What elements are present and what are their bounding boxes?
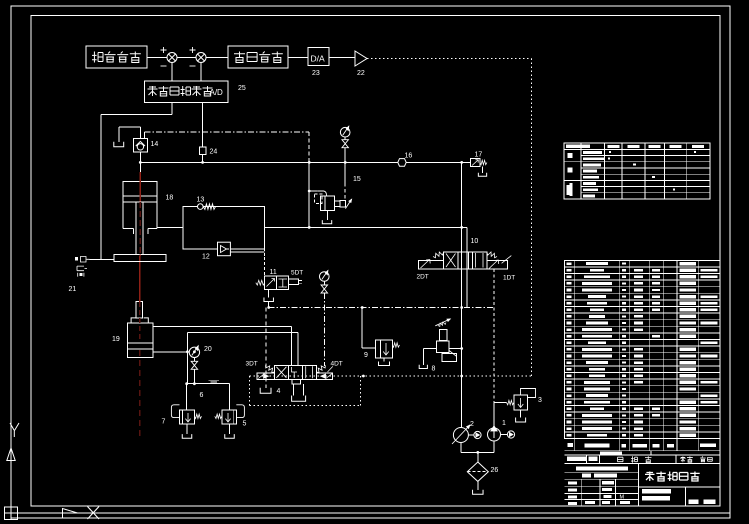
drawing title: hydraulic system diagram — [638, 486, 720, 488]
svg-text:7: 7 — [162, 419, 166, 426]
pump 1 fixed — [488, 428, 501, 441]
wire S1 to S2 — [177, 57, 196, 59]
UCS X axis arrow — [63, 509, 78, 518]
svg-text:22: 22 — [357, 70, 365, 77]
valve 10 right solenoid block — [487, 261, 508, 270]
dotted electric line bottom — [250, 375, 532, 377]
relief valve 3 — [514, 395, 528, 410]
wire command to summing junction — [147, 57, 167, 59]
svg-text:25: 25 — [238, 85, 246, 92]
cylinder 18 body — [123, 182, 157, 196]
svg-text:5DT: 5DT — [291, 270, 303, 277]
cylinder 19 body — [128, 323, 153, 357]
relief valve 7 — [180, 410, 195, 424]
cylinder 18 piston rod — [135, 202, 137, 254]
relief valve 5 — [222, 410, 237, 424]
parts category table top right — [564, 143, 710, 199]
svg-text:13: 13 — [197, 197, 205, 204]
wire 309 down to valve 15 and line y227 — [308, 162, 310, 227]
svg-text:1: 1 — [502, 420, 506, 427]
svg-text:24: 24 — [210, 149, 218, 156]
wire 8 right to pressure line — [449, 348, 462, 350]
dashed line down into main line at 309 — [308, 132, 310, 163]
block: command signal (zhiling xinhao) — [86, 46, 147, 68]
valve 4 right solenoid block — [316, 373, 332, 380]
breather tank symbol — [114, 142, 124, 147]
main line wire — [140, 161, 461, 163]
BOM header row — [565, 450, 720, 452]
svg-text:11: 11 — [270, 269, 277, 276]
cylinder 19 flange — [131, 318, 148, 323]
valve 17 drain — [482, 167, 484, 173]
svg-text:M: M — [620, 495, 625, 501]
BOM strip row — [565, 454, 720, 456]
solenoid valve 11 2-position — [265, 276, 289, 289]
svg-text:9: 9 — [364, 352, 368, 359]
wire to valve 9 — [361, 308, 363, 349]
suction line wires — [460, 443, 462, 453]
svg-text:2: 2 — [470, 421, 474, 428]
wire check valve 14 down to main line — [139, 152, 141, 181]
wire S2 down to A/D box — [200, 63, 202, 82]
valve 3 drain — [520, 410, 522, 417]
svg-text:2DT: 2DT — [417, 274, 429, 281]
svg-text:A/D: A/D — [210, 88, 224, 97]
cylinder 19 rod gland — [136, 302, 143, 318]
sensor bus vertical left — [100, 115, 102, 260]
svg-text:15: 15 — [353, 176, 361, 183]
wire S2 to control signal — [206, 57, 228, 59]
svg-text:10: 10 — [471, 238, 479, 245]
dash-dot pilot line from 14 to x309 — [144, 132, 146, 139]
filter 26 — [467, 462, 488, 481]
summing junction S1 — [167, 53, 177, 63]
svg-text:5: 5 — [243, 421, 247, 428]
solenoid valve 4 3-position body — [274, 365, 316, 379]
detail list title row — [565, 463, 720, 465]
svg-text:14: 14 — [151, 141, 159, 148]
block: multi-channel analog switch A/D 25 — [145, 81, 228, 103]
wire control to D/A — [288, 57, 308, 59]
svg-text:21: 21 — [69, 286, 77, 293]
block: control signal (kongzhi xinhao) — [228, 46, 288, 68]
pilot line from main line to valve 15 solenoid — [344, 162, 346, 183]
gauge 20 — [193, 350, 196, 353]
position sensor 21 glyphs — [75, 257, 78, 261]
wire down to valve 7 — [186, 384, 188, 410]
wire platform to position sensor 21 — [90, 258, 115, 260]
valve 7 drain — [186, 424, 188, 434]
dashed pilot from gauge down to valve 4 — [323, 293, 325, 366]
gauge above main line — [340, 127, 350, 137]
riser x187 wire — [186, 333, 188, 384]
pump 2 shaft motor — [468, 434, 474, 436]
UCS origin box — [5, 507, 18, 520]
work line x467 wire — [466, 227, 468, 307]
table group marks — [568, 153, 573, 158]
tank 6 vent marks — [209, 379, 220, 381]
svg-text:8: 8 — [432, 366, 436, 373]
wire breather to check valve 14 — [119, 126, 141, 128]
wire A/D box down-left to sensor bus — [171, 103, 173, 115]
cylinder 19 bottom port wire — [153, 351, 188, 353]
dotted enclosure right — [360, 376, 362, 406]
svg-text:3DT: 3DT — [246, 361, 258, 368]
node at 461 main line corner — [460, 161, 463, 164]
cylinder 18 port wire to feedback block — [157, 227, 183, 229]
wire pump1 pilot to valve 3 — [494, 402, 507, 404]
table name blobs — [583, 151, 602, 154]
svg-text:16: 16 — [405, 153, 413, 160]
table scatter marks — [609, 151, 611, 153]
gauge by valve 4 — [320, 272, 330, 282]
wire S1 down to A/D box — [171, 63, 173, 82]
wire block right to line y227 — [265, 226, 310, 228]
shutoff under gauge 20 — [193, 358, 195, 362]
svg-text:18: 18 — [166, 195, 174, 202]
svg-text:23: 23 — [312, 70, 320, 77]
coupling 16 — [398, 159, 406, 167]
svg-text:1DT: 1DT — [503, 275, 515, 282]
wire 24 down to main line — [202, 155, 204, 163]
wire D/A to amplifier — [329, 57, 355, 59]
pump 1 shaft motor — [501, 434, 508, 436]
UCS X axis label — [88, 507, 100, 520]
pilot branch from line y227 down to valve 11 — [264, 227, 266, 243]
dotted electric line down x531 — [531, 59, 533, 377]
dotted electric line from amplifier to x531 — [367, 58, 532, 60]
valve 15 proportional pressure valve — [318, 191, 327, 196]
valve 9 drain — [383, 358, 385, 362]
sensor 12 on block bottom — [218, 242, 231, 256]
valve 15 drain to tank — [327, 211, 329, 221]
title block upper rows — [565, 471, 639, 473]
title block sub-table — [580, 479, 582, 506]
filter to tank — [477, 481, 479, 489]
wire to valve 15 — [309, 190, 317, 192]
valve 11 drain dashed down to tank — [265, 308, 267, 388]
tank 6 line wire — [187, 383, 230, 385]
red rod through platform — [139, 255, 141, 257]
summing junction S2 — [196, 53, 206, 63]
dotted enclosure bottom — [250, 405, 361, 407]
work line y227 wire — [309, 226, 467, 228]
valve 5 drain — [229, 424, 231, 434]
block: D/A converter 23 — [308, 48, 329, 66]
node at 309 on main line — [308, 161, 311, 164]
svg-text:4DT: 4DT — [331, 361, 343, 368]
svg-text:3: 3 — [538, 397, 542, 404]
valve 3 remote bracket — [521, 389, 536, 398]
wire 12 to valve 11 dashed — [230, 251, 264, 253]
work line y332 wire — [187, 332, 298, 334]
feedback block enclosure — [183, 207, 265, 249]
servo valve 10 — [444, 252, 487, 269]
valve 4 left solenoid block — [257, 373, 275, 380]
red feedback rod line lower — [139, 256, 141, 302]
svg-text:26: 26 — [491, 467, 499, 474]
valve 4 center drain — [292, 379, 300, 384]
title block lower cells — [685, 487, 687, 506]
valve 8 pilot cartridge — [435, 319, 450, 326]
svg-text:19: 19 — [112, 336, 120, 343]
dotted enclosure left — [249, 376, 251, 406]
valve 11 drain to tank — [268, 289, 270, 297]
pilot dashed from valve 10 right to pump 1 — [493, 269, 495, 307]
relief valve 9 — [375, 340, 392, 358]
pilot wire down to valve 11 — [264, 257, 266, 276]
title block — [637, 464, 639, 507]
throttle 13 on block top — [198, 204, 204, 210]
svg-text:20: 20 — [204, 346, 212, 353]
svg-text:D/A: D/A — [311, 54, 326, 64]
table header text — [566, 145, 590, 149]
valve 10 left solenoid block — [418, 261, 443, 270]
UCS Y axis arrow — [7, 448, 15, 461]
wire A/D box down to square 24 — [202, 103, 204, 147]
BOM cell text blobs — [567, 262, 572, 265]
variable pump 2 — [453, 428, 468, 443]
BOM parts list table — [565, 260, 720, 438]
shutoff valve under gauge — [342, 140, 349, 144]
red feedback rod line upper — [139, 172, 141, 202]
svg-text:12: 12 — [202, 254, 210, 261]
wire 8 left to tank — [423, 348, 436, 350]
load platform — [114, 255, 166, 262]
check valve 14 — [133, 139, 147, 153]
cylinder 19 top port wire — [153, 326, 291, 328]
solenoid valve 17 — [471, 158, 480, 166]
pressure line x461 wire — [461, 162, 463, 428]
svg-text:6: 6 — [200, 392, 204, 399]
svg-text:17: 17 — [475, 152, 483, 159]
UCS Y axis label — [10, 423, 19, 437]
wire to valve 17 — [462, 161, 471, 163]
square component 24 — [199, 147, 206, 155]
shutoff under gauge 4 — [321, 285, 328, 289]
wire down to valve 5 — [229, 384, 231, 410]
svg-text:4: 4 — [277, 388, 281, 395]
UCS X axis line — [18, 512, 730, 514]
drain dash-dot line y307 wire — [268, 302, 270, 308]
amplifier triangle 22 — [355, 51, 367, 66]
